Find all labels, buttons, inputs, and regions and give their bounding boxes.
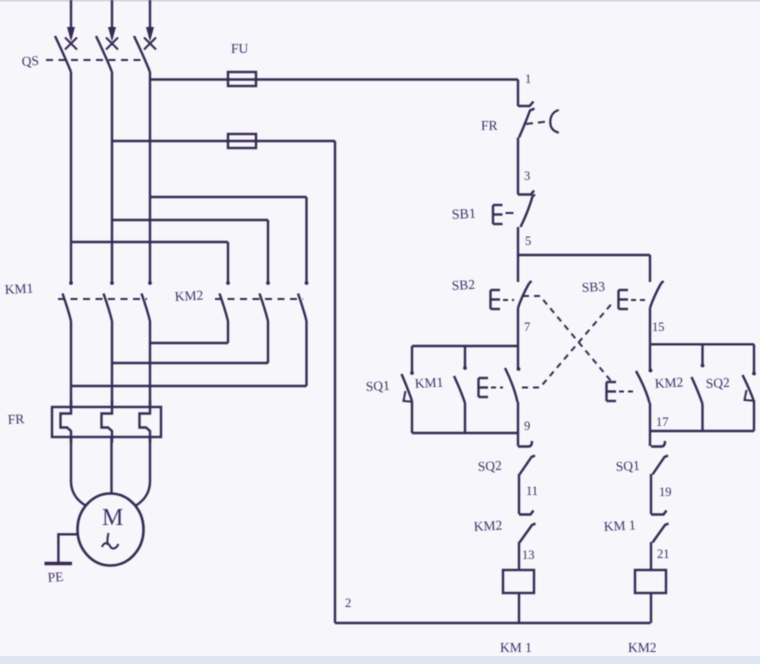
svg-text:FR: FR <box>7 411 24 427</box>
svg-text:FR: FR <box>481 118 498 133</box>
svg-text:19: 19 <box>659 485 672 499</box>
svg-text:KM2: KM2 <box>473 518 502 534</box>
svg-text:KM2: KM2 <box>174 288 203 304</box>
svg-text:KM1: KM1 <box>414 375 443 391</box>
svg-text:SB1: SB1 <box>451 207 476 223</box>
svg-text:17: 17 <box>656 415 669 429</box>
svg-text:KM2: KM2 <box>628 640 657 655</box>
svg-text:FU: FU <box>231 41 249 56</box>
svg-text:QS: QS <box>21 53 39 69</box>
svg-text:M: M <box>102 505 123 531</box>
svg-text:KM2: KM2 <box>654 375 683 391</box>
svg-text:11: 11 <box>526 484 538 498</box>
svg-text:7: 7 <box>524 320 530 334</box>
svg-text:1: 1 <box>525 72 531 86</box>
svg-text:KM 1: KM 1 <box>500 640 532 655</box>
svg-text:SB3: SB3 <box>581 279 605 295</box>
svg-text:15: 15 <box>652 320 665 334</box>
svg-text:5: 5 <box>525 234 531 248</box>
svg-text:SQ2: SQ2 <box>477 458 502 474</box>
svg-text:9: 9 <box>524 419 530 433</box>
svg-text:21: 21 <box>657 547 670 561</box>
svg-text:13: 13 <box>522 548 535 562</box>
svg-text:KM 1: KM 1 <box>603 517 636 534</box>
svg-text:SQ2: SQ2 <box>705 375 730 391</box>
svg-text:KM1: KM1 <box>4 281 33 297</box>
svg-text:2: 2 <box>345 596 351 610</box>
svg-text:SQ1: SQ1 <box>365 378 390 394</box>
svg-text:SB2: SB2 <box>451 277 475 293</box>
svg-text:SQ1: SQ1 <box>615 458 640 474</box>
svg-text:PE: PE <box>47 569 64 585</box>
svg-text:3: 3 <box>524 169 530 183</box>
